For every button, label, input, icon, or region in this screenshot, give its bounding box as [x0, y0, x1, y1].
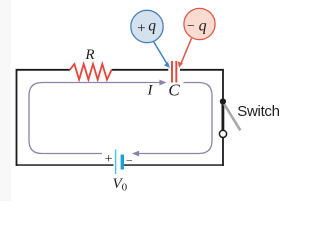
svg-text:q: q [148, 18, 156, 35]
charge bubble +q [131, 10, 163, 42]
current arrowhead (bottom, pointing left) [132, 151, 139, 157]
switch closed lever bar [221, 102, 224, 131]
resistor R1 zigzag [70, 64, 112, 80]
switch contact circle [219, 130, 226, 137]
svg-text:Switch: Switch [237, 103, 279, 120]
wire: top-left corner and left side [17, 70, 70, 166]
capacitor C1 left plate [171, 61, 173, 83]
current loop: purple right/bottom segment [138, 83, 212, 154]
current arrowhead I (top, pointing right) [159, 80, 166, 86]
current loop: purple left/top segment [29, 83, 161, 154]
svg-text:+: + [137, 20, 145, 36]
svg-text:C: C [168, 80, 180, 99]
battery V0 negative short plate [121, 155, 124, 170]
pointer arrow from +q to left plate (blue) [154, 42, 167, 64]
svg-text:q: q [199, 18, 207, 35]
wire: bottom right segment (gray) [123, 164, 223, 166]
svg-text:+: + [105, 152, 113, 167]
svg-text:−: − [187, 19, 195, 34]
svg-text:−: − [126, 153, 133, 167]
wire: bottom left segment (gray) [17, 164, 114, 166]
wire: top-right corner and right side [180, 70, 223, 166]
switch pivot dot [220, 98, 226, 104]
wire: top segment between resistor and capacitor [112, 69, 169, 71]
battery V0 positive long plate [115, 150, 117, 175]
capacitor C1 right plate [175, 61, 177, 83]
charge bubble -q [184, 8, 215, 39]
switch open-position lever (gray) [224, 103, 241, 130]
pointer arrow from -q to right plate (red) [181, 38, 191, 63]
svg-text:R: R [84, 47, 94, 63]
svg-text:I: I [147, 83, 154, 99]
